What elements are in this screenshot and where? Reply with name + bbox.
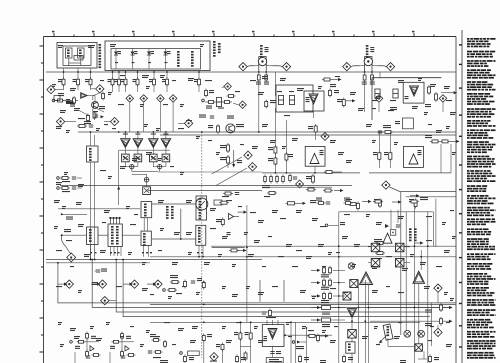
resistor [307,335,317,338]
horizontal bus y=185.5 [60,185,352,187]
wire y=321.2 [370,320,449,322]
resistor [440,140,450,143]
wire [146,182,148,187]
vertical [390,210,392,229]
resistor [344,202,353,205]
wire [240,345,250,347]
trimmer label [387,326,390,336]
U5 top pins [267,320,278,325]
diamond y284 [65,280,73,288]
long vertical wire [90,162,92,260]
resistor [317,334,320,343]
wire [378,102,380,112]
resistor [121,350,124,359]
amp out wire [152,148,154,155]
capacitor [262,312,266,314]
label [374,239,382,242]
IC box: ratio det [141,231,151,245]
resistor [239,331,242,341]
nested bus corner 2 [92,260,452,308]
tone label [144,204,147,217]
pin labels under boxes [90,252,203,253]
meter needle [199,201,205,207]
connector diamond [239,62,247,70]
bus y=262.8 [46,262,150,264]
wire bus to amp [165,132,167,139]
label bottom [210,361,217,362]
label [216,344,220,347]
resistor box [320,306,333,310]
mixer box below summing [143,187,151,195]
small box [54,96,60,101]
vertical label: SOUND IF [177,51,180,67]
resistor [329,266,332,275]
capacitor [121,356,125,358]
vertical wire [430,303,432,346]
IF filter inner box [111,49,201,70]
osc label [89,148,92,161]
diode D4 [164,52,168,56]
label [241,357,246,360]
resistor [379,198,382,208]
amp out wire [165,148,167,155]
selector top pins [111,219,120,224]
wire from IF box down [198,71,200,79]
wire [77,85,79,90]
mod node 1 [404,330,411,337]
leg label [362,82,367,85]
resistor [86,350,89,359]
wire to mixer column [333,295,345,297]
wire down from diamond [172,102,174,132]
vertical label mpx [409,228,412,241]
label [306,176,311,179]
junction [61,213,63,215]
wire [314,166,316,173]
diagonal wire 1 [212,157,242,174]
bus y=172.9 mid right [262,172,360,174]
wire [104,121,111,123]
coil L2 [78,48,85,58]
pilot amp triangle [383,233,392,243]
tuning potentiometer R [351,57,386,73]
pin wire [198,245,200,256]
mixer M3 [348,330,357,339]
arrow [346,99,356,102]
wire [418,358,427,360]
capacitor [326,202,330,204]
connector diamond [343,62,351,70]
bus y=259.5 [46,259,262,261]
resistor [60,187,70,190]
arrow [414,241,424,244]
label [216,219,221,222]
resistor [124,77,127,87]
label [268,158,273,161]
mixer B [395,243,404,252]
pin label [165,62,168,63]
diamond mid [244,151,252,159]
bus y=172.9 right [369,172,451,174]
electrolytic C12 [289,96,294,105]
bus y=304 [150,304,456,306]
wire [351,318,353,330]
output transistor cluster 1 [77,334,99,352]
connector diamond [282,62,290,70]
tuner section outer box [57,43,97,69]
label [405,96,409,99]
resistor [342,98,345,108]
wire [146,174,148,177]
U4 label [418,150,422,155]
scattered component value labels [52,44,456,347]
diamond [126,95,133,102]
label [322,324,330,327]
resistor [265,100,268,109]
pin wire [148,245,150,256]
wire [162,166,166,168]
wire [437,325,439,328]
wire bus to amp [152,132,154,139]
wire [441,92,448,94]
label [425,135,432,138]
wire [388,345,415,347]
diamond [382,181,390,189]
diamond mid [239,101,246,108]
schematic frame: top border line [44,36,457,38]
vertical label mpx2 [414,228,417,241]
label [220,157,226,160]
label [334,90,339,93]
selector top pin dots [110,217,121,219]
bus y=322.3 [150,321,420,323]
long vertical wire x247 [246,205,248,322]
wire [166,85,168,92]
label [374,199,379,202]
wire [109,300,116,302]
resistor [322,78,332,81]
wires in IF cluster [78,93,104,116]
wire from IF box down [166,71,168,79]
vertical wire [180,209,182,239]
diamond [184,119,192,127]
diamond input [67,253,76,262]
amp triangle [410,86,419,96]
wire bus to osc [94,135,96,146]
label [321,287,329,290]
amp pin label [135,134,140,135]
label [227,116,234,119]
summing node 1 [130,164,134,168]
wire [379,72,381,78]
wire [90,245,92,260]
op-amp triangle U4 [409,154,418,164]
label [153,357,161,358]
wire [65,121,77,123]
diode D2 label [134,51,138,54]
input terminal [52,99,55,102]
label [176,293,182,294]
label bottom [320,360,326,363]
resistor under pot leg [371,73,374,82]
label [93,111,98,112]
U5 label [264,336,268,341]
resistor [89,77,92,87]
wire [198,85,200,92]
wire to mixer column [333,282,345,284]
label [78,118,85,119]
wire y=307.5 to arrows [370,307,449,309]
resistor [329,292,332,301]
wire [125,166,129,168]
resistor value label [108,79,112,82]
label [62,191,70,192]
cap label [276,351,281,354]
mixer M2 [343,292,351,300]
mixer M1 [350,280,358,288]
small box [402,118,413,129]
wire bus to osc [90,132,92,146]
label inside L2 [79,50,82,57]
filter column 2 wire [132,49,134,70]
diode D3 label [151,51,155,54]
resistor [73,96,76,105]
label [425,310,432,313]
label [206,106,212,109]
amp pin label [123,134,128,135]
wire from IF box down [125,71,127,79]
vertical wire [435,199,437,247]
wire tone->ratio [143,218,145,231]
stub [328,224,338,226]
vertical wire [285,120,287,173]
diamond mid 2 [248,163,256,171]
power amp triangle 3 [149,139,159,148]
resistor [229,249,239,252]
wire [109,352,111,363]
capacitor [89,125,93,127]
op-amp triangle U5 [268,329,277,340]
label [340,222,345,225]
mixer E [415,344,422,351]
transistor arrow [229,214,240,220]
connector diamond [96,85,104,93]
wire [404,246,411,248]
filter column 3 wire [148,49,150,70]
left ruler tick marks [40,46,44,352]
arrow into diamond [124,283,134,286]
label [434,357,439,360]
diamond y284 [98,280,106,288]
IC label [348,344,351,351]
label [270,100,276,103]
wire [132,173,147,175]
inner box top edge y=196.8 [406,196,456,198]
leg label [264,82,269,85]
wire [118,85,120,92]
diode [385,224,389,228]
vertical wire [274,108,276,173]
terminal [57,187,60,190]
label [316,198,322,201]
vertical wire [239,322,241,363]
wire loud->sel [98,234,108,236]
resistor value label [73,79,77,82]
resistor [389,151,392,162]
pin label [132,62,135,63]
label [344,198,350,201]
big triangle up left [360,272,373,285]
label [207,334,212,337]
wire [74,352,76,363]
resistor [56,99,65,102]
resistor under pot leg [363,73,366,82]
arrow into diamond [91,283,101,286]
label [234,332,238,335]
label [420,197,428,200]
diamond y284 [154,280,162,288]
label [126,336,131,339]
series parts row y102 [205,101,232,103]
arrow [362,200,372,203]
wire [153,85,155,92]
vertical wire [357,280,359,363]
vertical [450,144,452,173]
label [150,334,156,337]
dark resistor blob [66,101,74,104]
top ruler tick marks [52,31,434,37]
leg label [256,82,261,85]
resistor [127,354,136,357]
vertical wire x=118.7 with up arrow [117,150,120,205]
output transistor cluster 2 [112,334,134,352]
resistor [153,77,156,87]
label [110,346,115,349]
label [395,121,400,124]
wire [334,171,342,173]
vertical [420,250,422,270]
input arrow [311,294,321,297]
selector bottom pins [111,247,122,257]
resistor [87,114,90,123]
capacitor [94,115,98,117]
resistor [357,202,360,211]
label [390,107,397,110]
mixer box under amp 1 [122,154,130,162]
amp pin label [163,134,168,135]
amp label [199,198,202,219]
label [189,357,194,360]
sel label [111,226,114,245]
wire [137,162,139,165]
wire [55,89,64,91]
resistor [227,143,230,153]
resistor [77,77,80,87]
wire [152,162,154,165]
resistor at bottom edge [236,355,239,363]
wire to mixer column [333,269,345,271]
resistor [414,199,417,209]
capacitor [72,177,76,179]
long vertical wire [94,162,96,256]
wire [423,351,425,359]
junction [61,234,63,236]
resistor [314,124,317,134]
label [91,336,96,339]
MPX box top edge [339,211,434,213]
resistor [152,339,161,342]
junction [203,281,205,283]
resistor [62,77,65,87]
IC box: equalizer [196,225,206,245]
label [296,346,304,349]
wire [91,88,96,90]
resistor [264,175,267,184]
terminal [292,341,295,344]
box outline bottom center-left [260,280,284,302]
angled wire from diamond [390,187,457,192]
wire to mixer column [333,307,345,309]
label [99,106,105,109]
resistor [112,340,121,343]
resistor [428,85,431,95]
capacitor [86,356,90,358]
diamond [210,353,218,361]
filter column 1 wire [115,49,117,70]
label [84,121,91,124]
label [197,278,202,281]
wire [69,62,81,64]
wire from tuner box down [63,68,65,79]
U5 output wire [284,334,332,336]
resistor on bus [375,242,385,245]
wire [153,166,157,168]
vertical [397,210,399,223]
resistor [77,340,86,343]
wire [351,338,353,342]
wire [272,346,274,357]
outer box left edge x=400.8 [400,192,402,335]
label [235,91,240,92]
diamond right 1 [434,284,442,292]
capacitor [191,281,195,283]
label [220,145,226,148]
resistor [289,174,292,183]
leg label [370,82,375,85]
op-amp box U3 [305,146,325,166]
input arrow [311,318,321,321]
resistor [274,156,277,166]
power amp triangle 1 [121,139,131,148]
resistor [378,151,381,162]
wire from IF box down [118,71,120,79]
filter column 4 wire [165,49,167,70]
C11 label [277,91,282,92]
wire down from diamond [143,102,145,132]
arrowheads right [449,306,453,323]
wire sel->ratio [122,234,140,236]
resistor [60,177,70,180]
wire [77,177,82,179]
terminal [202,99,205,102]
resistor [227,155,230,165]
label [245,332,249,335]
C45 label [101,269,107,272]
junction [392,232,394,234]
resistor [270,175,273,184]
summing node 3 [144,177,149,182]
label [425,323,432,326]
